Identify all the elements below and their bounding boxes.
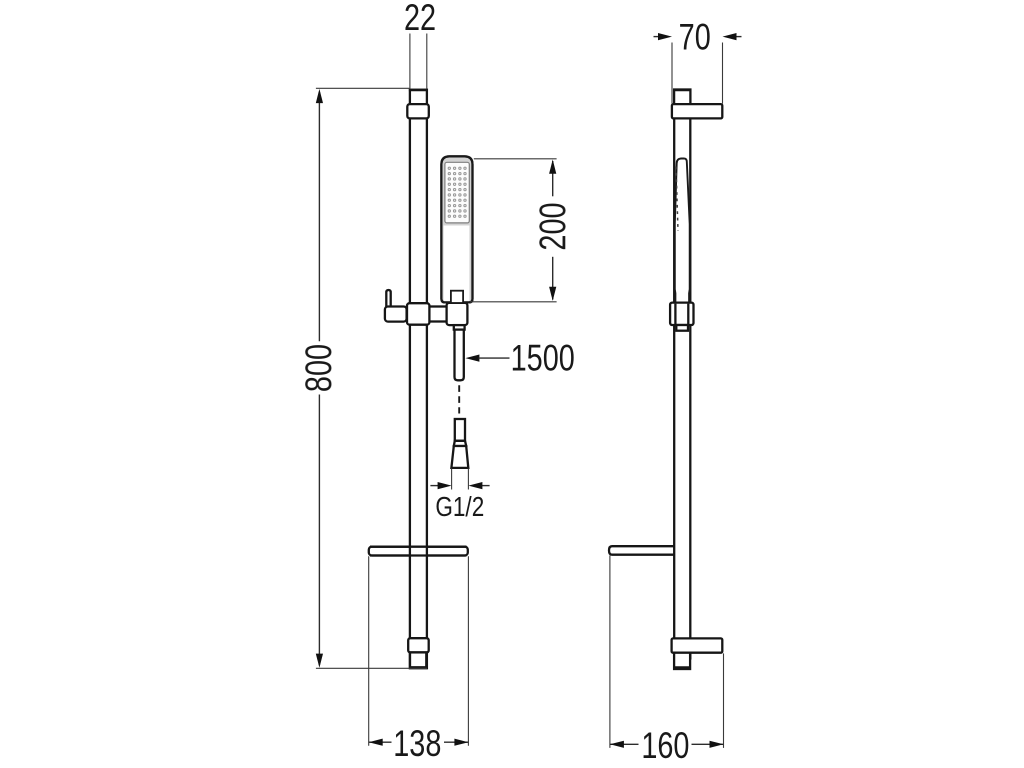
svg-text:200: 200	[533, 202, 574, 250]
svg-text:70: 70	[679, 17, 711, 58]
svg-text:1500: 1500	[511, 338, 575, 379]
svg-text:G1/2: G1/2	[435, 492, 484, 523]
svg-text:22: 22	[404, 0, 436, 39]
svg-text:800: 800	[299, 344, 340, 392]
svg-text:138: 138	[393, 723, 441, 764]
svg-text:160: 160	[641, 725, 689, 766]
